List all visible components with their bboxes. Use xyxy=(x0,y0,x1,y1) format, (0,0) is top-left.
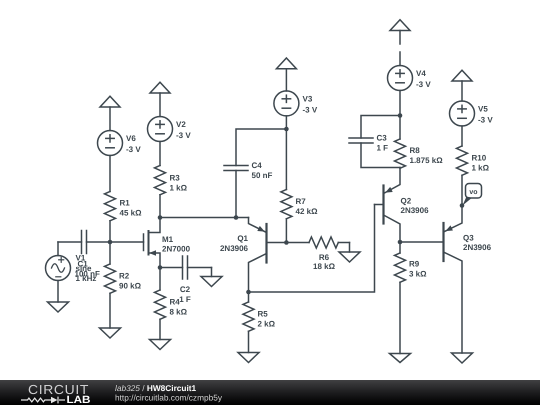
svg-text:http://circuitlab.com/czmpb5y: http://circuitlab.com/czmpb5y xyxy=(115,393,223,403)
label Q2 2N3906 xyxy=(401,197,430,216)
svg-text:1.875 kΩ: 1.875 kΩ xyxy=(410,156,444,165)
resistor R10 xyxy=(457,126,468,206)
svg-text:C4: C4 xyxy=(252,161,263,170)
svg-text:V6: V6 xyxy=(126,134,136,143)
wire node H to Q3 base xyxy=(400,241,444,243)
label V2 -3 V xyxy=(176,120,191,140)
svg-text:2N3906: 2N3906 xyxy=(463,243,492,252)
label R8 1.875 kOhm xyxy=(410,146,444,165)
resistor R3 xyxy=(155,142,166,218)
label C4 50 nF xyxy=(252,161,273,180)
label V6 -3 V xyxy=(126,134,141,154)
svg-text:45 kΩ: 45 kΩ xyxy=(120,209,143,218)
svg-text:V2: V2 xyxy=(176,120,186,129)
voltage source V5 xyxy=(450,101,475,126)
ground below V1 xyxy=(48,281,69,313)
label R2 90 kOhm xyxy=(119,272,142,291)
wire node E to Q2 base xyxy=(249,205,375,293)
wire C1 to node A xyxy=(87,241,111,243)
label V1 sine 1 kHz xyxy=(76,254,97,284)
resistor R8 xyxy=(395,139,406,168)
wire C2 to ground xyxy=(188,268,212,277)
power symbol above V5 xyxy=(452,70,472,101)
logo waveform and diode xyxy=(21,397,65,404)
capacitor C2 xyxy=(183,256,188,279)
node E (Q1 collector / R5 / Q2 base wire) xyxy=(246,290,251,295)
svg-text:R9: R9 xyxy=(409,260,420,269)
node I (R10 / vo / Q3 emitter) xyxy=(460,203,465,208)
label Q3 2N3906 xyxy=(463,234,492,253)
node C4 tap xyxy=(234,215,239,220)
svg-text:Q1: Q1 xyxy=(237,234,248,243)
wire source to C2 xyxy=(160,267,183,269)
label R10 1 kOhm xyxy=(472,154,490,173)
transistor Q2 (PNP 2N3906) xyxy=(375,168,401,243)
svg-text:R5: R5 xyxy=(258,310,269,319)
svg-text:1 kΩ: 1 kΩ xyxy=(170,184,188,193)
label C3 1 F xyxy=(377,134,389,153)
svg-text:vo: vo xyxy=(469,189,477,196)
label C1 100 nF xyxy=(75,260,100,279)
wire V4 to node F xyxy=(399,91,401,140)
ground right of C2 xyxy=(201,277,222,287)
svg-text:8 kΩ: 8 kΩ xyxy=(170,307,188,316)
label V4 -3 V xyxy=(416,69,431,89)
ground below R5 xyxy=(238,353,259,363)
svg-text:lab325 / HW8Circuit1: lab325 / HW8Circuit1 xyxy=(115,383,197,393)
power symbol above V6 xyxy=(100,96,120,130)
label M1 2N7000 xyxy=(162,235,191,254)
voltage source V6 xyxy=(98,131,123,156)
voltage source V4 xyxy=(388,66,413,91)
label R6 18 kOhm xyxy=(313,253,336,271)
svg-text:R10: R10 xyxy=(472,154,487,163)
svg-text:3 kΩ: 3 kΩ xyxy=(409,270,427,279)
svg-text:M1: M1 xyxy=(162,235,174,244)
svg-text:2N7000: 2N7000 xyxy=(162,245,191,254)
svg-text:1 kΩ: 1 kΩ xyxy=(472,164,490,173)
svg-text:R4: R4 xyxy=(170,297,181,306)
label R5 2 kOhm xyxy=(258,310,276,329)
svg-text:-3 V: -3 V xyxy=(303,106,318,115)
resistor R6 xyxy=(286,237,349,252)
label R1 45 kOhm xyxy=(120,199,143,218)
svg-text:Q3: Q3 xyxy=(463,234,474,243)
svg-text:Q2: Q2 xyxy=(401,197,412,206)
voltage source V1 sine xyxy=(46,256,71,281)
svg-text:42 kΩ: 42 kΩ xyxy=(296,207,319,216)
ground below R9 xyxy=(390,354,411,363)
svg-text:V3: V3 xyxy=(303,95,313,104)
resistor R7 xyxy=(281,190,292,243)
resistor R9 xyxy=(395,242,406,354)
svg-text:V4: V4 xyxy=(416,69,426,78)
wire V3 to R7 xyxy=(285,116,287,190)
svg-text:R3: R3 xyxy=(170,174,181,183)
capacitor C1 xyxy=(82,231,87,254)
label R9 3 kOhm xyxy=(409,260,427,279)
label C2 1 F xyxy=(179,285,191,304)
node F (V4/C3/R8) xyxy=(398,113,403,118)
footer bar xyxy=(0,380,540,405)
svg-text:1 F: 1 F xyxy=(377,144,389,153)
label R4 8 kOhm xyxy=(170,297,188,316)
transistor M1 (NMOS 2N7000) xyxy=(144,218,161,268)
wire gate xyxy=(110,241,144,243)
label Q1 2N3906 xyxy=(220,234,249,253)
node source of M1 xyxy=(158,265,163,270)
wire stub to V4 xyxy=(399,52,401,66)
power symbol above V2 xyxy=(150,82,170,116)
svg-text:-3 V: -3 V xyxy=(126,145,141,154)
resistor R1 xyxy=(105,156,116,243)
power symbol above V4 xyxy=(390,20,410,44)
svg-text:C2: C2 xyxy=(180,285,191,294)
label V5 -3 V xyxy=(478,105,493,125)
svg-text:100 nF: 100 nF xyxy=(75,270,100,279)
svg-text:R7: R7 xyxy=(296,197,307,206)
svg-text:R8: R8 xyxy=(410,146,421,155)
capacitor C3 xyxy=(349,116,400,168)
ground below R4 xyxy=(150,340,171,350)
resistor R5 xyxy=(243,292,254,353)
node A (R1/R2/C1/gate junction) xyxy=(108,240,113,245)
svg-text:2N3906: 2N3906 xyxy=(220,244,249,253)
voltage source V2 xyxy=(148,117,173,142)
svg-text:R6: R6 xyxy=(319,253,330,262)
ground right of R6 xyxy=(339,252,360,262)
label R3 1 kOhm xyxy=(170,174,188,193)
svg-text:C3: C3 xyxy=(377,134,388,143)
svg-text:2 kΩ: 2 kΩ xyxy=(258,320,276,329)
svg-text:-3 V: -3 V xyxy=(416,80,431,89)
svg-text:-3 V: -3 V xyxy=(176,131,191,140)
wire V1 top to C1 xyxy=(58,242,82,256)
power symbol above V3 xyxy=(276,58,296,91)
svg-text:1 F: 1 F xyxy=(179,295,191,304)
label V3 -3 V xyxy=(303,95,318,115)
node B (drain / R3 junction) xyxy=(158,215,163,220)
resistor R4 xyxy=(155,268,166,340)
node vo flag xyxy=(463,184,482,206)
label R7 42 kOhm xyxy=(296,197,319,216)
label vo xyxy=(469,189,477,196)
capacitor C4 xyxy=(224,129,286,218)
transistor Q1 (PNP 2N3906, mirrored) xyxy=(249,218,287,293)
ground below Q3 xyxy=(452,353,473,363)
svg-text:LAB: LAB xyxy=(67,394,91,405)
svg-text:R2: R2 xyxy=(119,272,130,281)
svg-text:2N3906: 2N3906 xyxy=(401,206,430,215)
node H (Q2 collector / R9 / Q3 base) xyxy=(398,240,403,245)
svg-text:90 kΩ: 90 kΩ xyxy=(119,282,142,291)
svg-text:C1: C1 xyxy=(78,260,89,269)
voltage source V3 xyxy=(274,91,299,116)
svg-text:R1: R1 xyxy=(120,199,131,208)
svg-text:-3 V: -3 V xyxy=(478,116,493,125)
svg-text:50 nF: 50 nF xyxy=(252,171,273,180)
transistor Q3 (PNP 2N3906) xyxy=(444,206,463,354)
ground below R2 xyxy=(100,328,121,338)
resistor R2 xyxy=(105,242,116,328)
wire node B to Q1 emitter xyxy=(160,217,249,219)
node D (R7/Q1 base/R6) xyxy=(284,240,289,245)
node C4 top junction xyxy=(284,127,289,132)
svg-text:18 kΩ: 18 kΩ xyxy=(313,262,336,271)
svg-text:V5: V5 xyxy=(478,105,488,114)
